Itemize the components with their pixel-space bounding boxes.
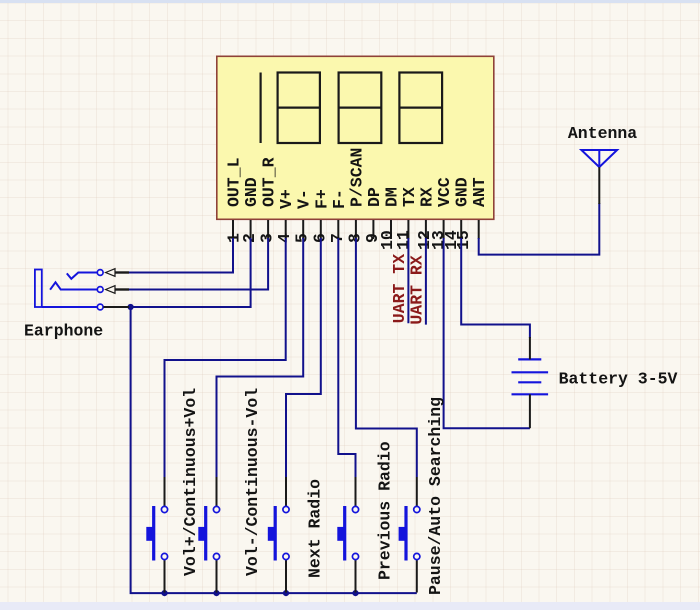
7-segment digit 8 (first) xyxy=(278,73,320,144)
earphone ring contact xyxy=(50,282,97,289)
wire pin11 UART TX stub xyxy=(407,238,409,323)
svg-text:GND: GND xyxy=(453,177,472,207)
svg-text:11: 11 xyxy=(394,230,413,250)
battery BT1 plates xyxy=(512,359,549,394)
node junction bus S3 xyxy=(283,590,289,596)
earphone sleeve contact wire xyxy=(42,306,98,308)
7-segment digit 8 (third) xyxy=(399,73,442,144)
sleeve black wire segment xyxy=(103,306,129,308)
button S1 xyxy=(146,477,167,593)
svg-text:DM: DM xyxy=(383,187,402,207)
svg-text:F+: F+ xyxy=(312,189,331,209)
svg-text:OUT_R: OUT_R xyxy=(260,157,279,207)
wire pin13 to battery minus xyxy=(444,238,530,428)
wire pin2 to earphone sleeve node xyxy=(131,238,251,307)
button S4 xyxy=(337,477,358,593)
svg-text:F-: F- xyxy=(330,189,349,209)
button S3 xyxy=(268,477,289,593)
pin name labels xyxy=(225,148,490,209)
svg-text:Pause/Auto Searching: Pause/Auto Searching xyxy=(426,397,445,595)
display module U1 body xyxy=(217,56,494,219)
svg-text:Antenna: Antenna xyxy=(568,124,637,143)
svg-text:Battery 3-5V: Battery 3-5V xyxy=(559,370,678,389)
svg-text:Earphone: Earphone xyxy=(24,321,103,340)
svg-text:TX: TX xyxy=(400,187,419,207)
svg-text:DP: DP xyxy=(365,187,384,207)
7-segment digit 8 (second) xyxy=(339,73,382,144)
button S2 xyxy=(198,477,219,593)
antenna pin xyxy=(598,167,600,204)
wire pin1 to earphone tip xyxy=(128,238,233,273)
wire pin5 to button S2 xyxy=(217,238,304,477)
wire pin3 to earphone ring xyxy=(128,238,268,290)
battery top pin xyxy=(529,337,531,359)
svg-text:GND: GND xyxy=(242,177,261,207)
wire pin15 to antenna xyxy=(479,203,600,255)
svg-text:UART RX: UART RX xyxy=(408,255,427,324)
svg-text:15: 15 xyxy=(454,230,473,250)
arrow on ring wire xyxy=(106,286,129,294)
button S5 xyxy=(399,477,420,593)
node junction bus S4 xyxy=(352,590,358,596)
earphone terminal circle sleeve xyxy=(97,304,103,310)
arrow on tip wire xyxy=(106,269,129,277)
wire pin8 to button S5 xyxy=(356,238,417,477)
svg-text:P/SCAN: P/SCAN xyxy=(347,148,366,207)
pin stubs 1-15 xyxy=(233,220,479,239)
7-segment digit 1 xyxy=(260,73,262,144)
pin numbers 1-15 xyxy=(225,230,474,250)
earphone tip contact xyxy=(67,273,98,279)
earphone terminal circle ring xyxy=(97,287,103,293)
wire pin12 UART RX stub xyxy=(425,238,427,325)
earphone terminal circle tip xyxy=(97,270,103,276)
wire pin14 to battery plus xyxy=(461,238,530,338)
earphone jack J1 body xyxy=(35,270,42,308)
svg-text:Next Radio: Next Radio xyxy=(306,479,325,578)
svg-text:V-: V- xyxy=(295,189,314,209)
svg-text:Vol+/Continuous+Vol: Vol+/Continuous+Vol xyxy=(181,388,200,576)
svg-text:OUT_L: OUT_L xyxy=(225,157,244,207)
svg-text:UART TX: UART TX xyxy=(390,254,409,323)
svg-text:V+: V+ xyxy=(277,189,296,209)
svg-text:VCC: VCC xyxy=(435,177,454,207)
svg-text:RX: RX xyxy=(417,187,436,207)
wire ground trunk and button bus xyxy=(131,307,417,593)
wire pin4 to button S1 xyxy=(165,238,286,477)
node junction bus S2 xyxy=(213,590,219,596)
wire pin7 to button S4 xyxy=(338,238,355,477)
svg-text:Vol-/Continuous-Vol: Vol-/Continuous-Vol xyxy=(243,388,262,576)
node junction bus S1 xyxy=(161,590,167,596)
svg-text:Previous Radio: Previous Radio xyxy=(376,441,395,580)
node junction earphone sleeve xyxy=(128,304,134,310)
antenna symbol xyxy=(581,150,617,167)
battery bottom pin xyxy=(529,394,531,428)
svg-text:ANT: ANT xyxy=(470,177,489,207)
wire pin6 to button S3 xyxy=(286,238,321,477)
